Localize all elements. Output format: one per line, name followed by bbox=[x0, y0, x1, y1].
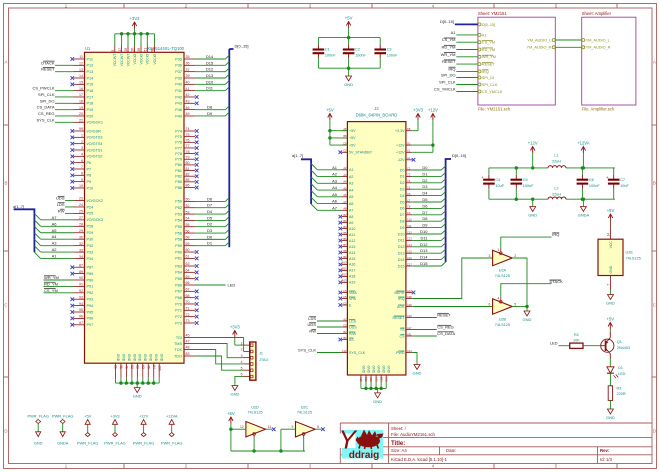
svg-text:92: 92 bbox=[79, 289, 83, 293]
capacitor C6 bbox=[577, 166, 601, 201]
svg-text:100nF: 100nF bbox=[523, 184, 534, 188]
bus a[1..7] at J2 bbox=[292, 153, 342, 210]
svg-text:C3: C3 bbox=[387, 47, 392, 51]
svg-text:Title:: Title: bbox=[391, 441, 405, 447]
wire IRQ label to U2A enable bbox=[501, 232, 560, 248]
svg-text:P76: P76 bbox=[175, 141, 182, 145]
svg-text:LED: LED bbox=[618, 372, 626, 376]
svg-text:P28: P28 bbox=[87, 225, 94, 229]
svg-text:P94: P94 bbox=[87, 304, 94, 308]
svg-text:62: 62 bbox=[136, 365, 140, 369]
svg-text:P37: P37 bbox=[175, 70, 182, 74]
svg-text:P95: P95 bbox=[87, 310, 94, 314]
svg-text:A2: A2 bbox=[52, 247, 58, 252]
svg-text:B8: B8 bbox=[343, 249, 347, 253]
resistor R3 220R bbox=[608, 373, 626, 400]
svg-text:PWR_FLAG: PWR_FLAG bbox=[133, 440, 154, 445]
svg-text:I/O/GCK2: I/O/GCK2 bbox=[87, 199, 103, 203]
svg-text:+5V: +5V bbox=[607, 208, 615, 213]
svg-text:C: C bbox=[4, 303, 7, 308]
svg-text:93: 93 bbox=[79, 295, 83, 299]
svg-text:GND: GND bbox=[230, 392, 239, 397]
sheet Amplifier bbox=[582, 11, 636, 112]
svg-text:+: + bbox=[481, 175, 484, 180]
svg-text:+5V: +5V bbox=[227, 411, 235, 416]
svg-text:GNDA: GNDA bbox=[57, 440, 69, 445]
svg-text:VPA: VPA bbox=[349, 297, 357, 301]
svg-text:SYS_CLK: SYS_CLK bbox=[349, 351, 366, 355]
svg-text:I/O/GTS2: I/O/GTS2 bbox=[87, 155, 103, 159]
svg-text:C5: C5 bbox=[407, 186, 411, 190]
svg-text:B13: B13 bbox=[342, 279, 347, 283]
svg-text:C32: C32 bbox=[384, 377, 388, 382]
svg-text:9: 9 bbox=[291, 425, 293, 429]
svg-text:B2: B2 bbox=[343, 330, 347, 334]
svg-text:A3: A3 bbox=[343, 173, 347, 177]
svg-text:11: 11 bbox=[79, 55, 83, 59]
svg-text:P15: P15 bbox=[87, 83, 94, 87]
svg-text:14: 14 bbox=[79, 74, 83, 78]
svg-text:+3V3: +3V3 bbox=[413, 107, 424, 112]
power +5V above C2 bbox=[345, 15, 353, 37]
svg-text:SPI_CLK: SPI_CLK bbox=[38, 92, 55, 97]
svg-text:YM_AUDIO_L: YM_AUDIO_L bbox=[527, 38, 551, 42]
svg-text:61: 61 bbox=[186, 255, 190, 259]
svg-text:R2: R2 bbox=[574, 333, 579, 337]
svg-text:VMA: VMA bbox=[349, 291, 357, 295]
svg-text:IRQ: IRQ bbox=[398, 297, 405, 301]
svg-text:A7: A7 bbox=[349, 209, 353, 213]
svg-text:CS: CS bbox=[400, 334, 406, 338]
svg-text:R3: R3 bbox=[617, 387, 622, 391]
svg-text:GND: GND bbox=[116, 354, 120, 362]
svg-text:TDI: TDI bbox=[176, 336, 182, 340]
svg-text:SYS_CLK: SYS_CLK bbox=[298, 348, 316, 353]
svg-text:VCC: VCC bbox=[609, 241, 613, 249]
svg-text:19: 19 bbox=[79, 106, 83, 110]
inductor L2 bbox=[489, 187, 615, 200]
svg-text:43: 43 bbox=[186, 100, 190, 104]
svg-text:Rev:: Rev: bbox=[600, 448, 610, 453]
svg-text:75: 75 bbox=[186, 133, 190, 137]
svg-text:D14: D14 bbox=[206, 54, 214, 59]
svg-text:P16: P16 bbox=[87, 89, 94, 93]
svg-text:A1: A1 bbox=[52, 254, 58, 259]
svg-text:D8: D8 bbox=[407, 127, 411, 131]
svg-text:A4: A4 bbox=[52, 234, 58, 239]
svg-text:VCCINT: VCCINT bbox=[126, 54, 130, 67]
svg-text:A31: A31 bbox=[407, 332, 412, 336]
svg-text:3: 3 bbox=[489, 254, 491, 258]
capacitor C7 bbox=[606, 168, 630, 199]
svg-text:+3V3: +3V3 bbox=[110, 413, 119, 418]
svg-text:96: 96 bbox=[79, 315, 83, 319]
svg-text:3: 3 bbox=[81, 146, 83, 150]
svg-text:73: 73 bbox=[186, 319, 190, 323]
svg-text:B11: B11 bbox=[342, 267, 347, 271]
svg-text:C2: C2 bbox=[343, 149, 347, 153]
svg-text:D4: D4 bbox=[422, 191, 428, 196]
wire TDO to J1 bbox=[195, 356, 244, 370]
svg-text:74LS125: 74LS125 bbox=[247, 411, 262, 415]
svg-text:10: 10 bbox=[79, 184, 83, 188]
svg-text:52: 52 bbox=[186, 204, 190, 208]
svg-text:24: 24 bbox=[79, 203, 83, 207]
svg-text:D11: D11 bbox=[398, 239, 404, 243]
labels into sheet YM2151 bbox=[434, 19, 478, 91]
svg-text:49: 49 bbox=[186, 112, 190, 116]
svg-text:C2: C2 bbox=[355, 47, 360, 51]
svg-text:70: 70 bbox=[186, 300, 190, 304]
svg-text:D13: D13 bbox=[206, 73, 214, 78]
svg-text:10uF: 10uF bbox=[620, 184, 629, 188]
transistor Q1 2N4403 bbox=[601, 332, 630, 359]
svg-text:A6: A6 bbox=[332, 199, 338, 204]
svg-text:P61: P61 bbox=[175, 257, 182, 261]
svg-text:A11: A11 bbox=[349, 233, 355, 237]
svg-text:4: 4 bbox=[81, 153, 83, 157]
no-connect U2C output bbox=[315, 427, 325, 431]
svg-text:Sheet: YM2151: Sheet: YM2151 bbox=[478, 11, 507, 16]
svg-text:SYS_CLK: SYS_CLK bbox=[36, 117, 54, 122]
power +3V3 at J1 bbox=[230, 324, 244, 345]
svg-text:C7: C7 bbox=[407, 198, 411, 202]
svg-text:C16: C16 bbox=[407, 256, 412, 260]
svg-text:P35: P35 bbox=[175, 57, 182, 61]
svg-text:13: 13 bbox=[79, 68, 83, 72]
svg-text:P6: P6 bbox=[87, 161, 92, 165]
svg-text:LDS: LDS bbox=[349, 319, 357, 323]
svg-text:67: 67 bbox=[186, 288, 190, 292]
IC U1 XC95144XL-TQ100 bbox=[85, 46, 185, 363]
svg-text:P54: P54 bbox=[175, 219, 182, 223]
svg-text:68: 68 bbox=[186, 294, 190, 298]
svg-text:P60: P60 bbox=[175, 250, 182, 254]
svg-text:TCK: TCK bbox=[174, 348, 182, 352]
svg-text:35: 35 bbox=[186, 55, 190, 59]
svg-text:2: 2 bbox=[81, 140, 83, 144]
ground under U2E bbox=[606, 290, 615, 306]
svg-text:8: 8 bbox=[317, 425, 319, 429]
power flag +12VA bbox=[161, 413, 182, 445]
svg-text:C17: C17 bbox=[407, 262, 412, 266]
svg-text:P66: P66 bbox=[175, 283, 182, 287]
ground under C2 bbox=[344, 68, 353, 87]
svg-text:C7: C7 bbox=[620, 178, 625, 182]
svg-text:A18: A18 bbox=[349, 275, 355, 279]
svg-text:SPI_CLK: SPI_CLK bbox=[439, 80, 456, 85]
svg-text:28: 28 bbox=[124, 48, 128, 52]
svg-text:GND: GND bbox=[371, 366, 375, 374]
label RESET right of J2 bbox=[412, 313, 451, 318]
svg-text:P12: P12 bbox=[87, 64, 94, 68]
svg-text:B: B bbox=[653, 181, 656, 186]
U1 right pins bbox=[174, 55, 199, 358]
svg-text:GND: GND bbox=[344, 82, 353, 87]
svg-text:+5V: +5V bbox=[349, 143, 356, 147]
svg-text:D14: D14 bbox=[398, 258, 405, 262]
svg-text:52: 52 bbox=[130, 365, 134, 369]
svg-text:74LS125: 74LS125 bbox=[495, 274, 510, 278]
svg-text:File: YM2151.sch: File: YM2151.sch bbox=[478, 106, 511, 111]
svg-text:D6: D6 bbox=[400, 207, 405, 211]
svg-text:Id: 1/3: Id: 1/3 bbox=[600, 457, 613, 462]
svg-text:D9: D9 bbox=[422, 223, 428, 228]
svg-text:+12VA: +12VA bbox=[577, 140, 590, 145]
svg-text:I/O/GSR: I/O/GSR bbox=[87, 129, 102, 133]
svg-text:P25: P25 bbox=[87, 212, 94, 216]
svg-text:81: 81 bbox=[186, 167, 190, 171]
J2 left pins bbox=[339, 127, 373, 355]
J2 ground pins bottom bbox=[359, 366, 391, 391]
svg-text:P93: P93 bbox=[87, 298, 94, 302]
svg-text:31: 31 bbox=[119, 365, 123, 369]
svg-text:P20: P20 bbox=[87, 114, 94, 118]
svg-text:99: 99 bbox=[79, 127, 83, 131]
svg-text:D11: D11 bbox=[420, 235, 428, 240]
svg-text:7: 7 bbox=[607, 284, 611, 286]
svg-text:C24: C24 bbox=[407, 349, 412, 353]
svg-text:I/O/GCK3: I/O/GCK3 bbox=[87, 218, 103, 222]
svg-text:30: 30 bbox=[79, 235, 83, 239]
svg-text:P89: P89 bbox=[87, 272, 94, 276]
svg-text:D1: D1 bbox=[207, 241, 213, 246]
svg-text:GND: GND bbox=[523, 317, 532, 322]
svg-text:A1: A1 bbox=[407, 156, 411, 160]
svg-text:P68: P68 bbox=[175, 296, 182, 300]
bus D[0..15] at J2 bbox=[412, 153, 466, 266]
sheet YM2151 bbox=[478, 11, 555, 112]
svg-text:12: 12 bbox=[240, 425, 244, 429]
svg-text:12: 12 bbox=[79, 62, 83, 66]
svg-text:74LS125: 74LS125 bbox=[297, 411, 312, 415]
svg-text:P56: P56 bbox=[175, 231, 182, 235]
svg-text:A1: A1 bbox=[451, 30, 457, 35]
svg-text:GND: GND bbox=[132, 354, 136, 362]
svg-text:RD_YM: RD_YM bbox=[482, 48, 495, 52]
svg-text:P10: P10 bbox=[87, 186, 94, 190]
svg-text:41: 41 bbox=[125, 365, 129, 369]
svg-text:A19: A19 bbox=[349, 281, 355, 285]
svg-text:GND: GND bbox=[387, 366, 391, 374]
svg-text:P74: P74 bbox=[175, 129, 182, 133]
power +3V3 at U1 top bbox=[111, 16, 157, 67]
svg-text:SPI_CLK: SPI_CLK bbox=[482, 83, 498, 87]
svg-text:C3: C3 bbox=[407, 173, 411, 177]
svg-text:D12: D12 bbox=[206, 67, 214, 72]
svg-text:2: 2 bbox=[241, 348, 243, 352]
svg-text:A12: A12 bbox=[349, 239, 355, 243]
svg-text:A6: A6 bbox=[52, 221, 58, 226]
svg-text:C8: C8 bbox=[407, 205, 411, 209]
svg-text:A9: A9 bbox=[349, 221, 353, 225]
svg-text:10K: 10K bbox=[573, 338, 580, 342]
svg-text:P39: P39 bbox=[175, 76, 182, 80]
svg-text:B7: B7 bbox=[343, 243, 347, 247]
svg-text:C1: C1 bbox=[407, 149, 411, 153]
svg-text:D0: D0 bbox=[207, 234, 213, 239]
svg-text:14: 14 bbox=[607, 233, 611, 237]
svg-text:15: 15 bbox=[79, 81, 83, 85]
svg-text:D2: D2 bbox=[400, 181, 405, 185]
svg-text:63: 63 bbox=[186, 262, 190, 266]
svg-text:GND: GND bbox=[361, 366, 365, 374]
svg-text:38: 38 bbox=[137, 48, 141, 52]
svg-text:D8: D8 bbox=[400, 220, 405, 224]
svg-text:PWR_FLAG: PWR_FLAG bbox=[77, 440, 98, 445]
svg-text:D1: D1 bbox=[407, 141, 411, 145]
svg-text:JTAG: JTAG bbox=[259, 358, 268, 362]
svg-text:37: 37 bbox=[186, 68, 190, 72]
svg-text:9: 9 bbox=[81, 178, 83, 182]
svg-text:D7: D7 bbox=[207, 203, 213, 208]
svg-text:A7: A7 bbox=[343, 200, 347, 204]
svg-text:2: 2 bbox=[514, 254, 516, 258]
power flag +3V3 bbox=[104, 413, 125, 445]
J2 right pins bbox=[393, 127, 416, 355]
svg-text:+3V3: +3V3 bbox=[230, 324, 241, 329]
svg-text:GND: GND bbox=[34, 440, 43, 445]
svg-text:+12V: +12V bbox=[396, 143, 405, 147]
svg-text:66: 66 bbox=[186, 281, 190, 285]
svg-text:TDO: TDO bbox=[174, 354, 182, 358]
svg-text:100nF: 100nF bbox=[325, 53, 336, 57]
bus a[1..7] left bbox=[13, 204, 74, 259]
svg-text:LED: LED bbox=[228, 282, 236, 287]
svg-text:B4: B4 bbox=[343, 225, 347, 229]
svg-text:A5: A5 bbox=[343, 186, 347, 190]
svg-text:A4: A4 bbox=[349, 188, 353, 192]
svg-text:D5: D5 bbox=[422, 197, 428, 202]
svg-text:+5V: +5V bbox=[349, 129, 356, 133]
svg-text:P42: P42 bbox=[175, 95, 182, 99]
svg-text:P81: P81 bbox=[175, 169, 182, 173]
svg-text:40: 40 bbox=[186, 81, 190, 85]
svg-text:+5V: +5V bbox=[345, 15, 353, 20]
svg-text:D6: D6 bbox=[207, 196, 213, 201]
svg-text:17: 17 bbox=[79, 93, 83, 97]
svg-text:D12: D12 bbox=[420, 242, 428, 247]
svg-text:R/W: R/W bbox=[349, 332, 357, 336]
power +12V at J2 right bbox=[412, 107, 438, 152]
svg-text:C6: C6 bbox=[407, 192, 411, 196]
svg-text:80: 80 bbox=[186, 161, 190, 165]
power flag GNDA bbox=[52, 413, 73, 445]
svg-text:VCCIO: VCCIO bbox=[133, 53, 137, 64]
svg-text:59: 59 bbox=[186, 242, 190, 246]
svg-text:P87: P87 bbox=[87, 266, 94, 270]
svg-text:86: 86 bbox=[186, 184, 190, 188]
power +3V3 at J2 right bbox=[412, 107, 423, 130]
svg-text:C5: C5 bbox=[343, 295, 347, 299]
no-connect U2D output bbox=[266, 427, 276, 431]
wire TDI drop bbox=[243, 338, 245, 352]
svg-text:A5: A5 bbox=[52, 228, 58, 233]
svg-text:C3: C3 bbox=[343, 323, 347, 327]
svg-text:32: 32 bbox=[79, 242, 83, 246]
svg-text:P58: P58 bbox=[175, 238, 182, 242]
svg-text:J2: J2 bbox=[374, 106, 379, 111]
svg-text:C4: C4 bbox=[495, 178, 500, 182]
svg-text:A17: A17 bbox=[407, 326, 412, 330]
svg-text:RESET: RESET bbox=[482, 63, 495, 67]
svg-text:A4: A4 bbox=[343, 180, 347, 184]
svg-text:5: 5 bbox=[111, 50, 115, 52]
svg-text:11: 11 bbox=[268, 425, 272, 429]
svg-text:P11: P11 bbox=[87, 57, 93, 61]
svg-text:P70: P70 bbox=[175, 302, 182, 306]
svg-text:ACK: ACK bbox=[397, 305, 405, 309]
svg-text:D4: D4 bbox=[207, 209, 213, 214]
svg-text:P92: P92 bbox=[87, 291, 94, 295]
svg-text:P33: P33 bbox=[87, 250, 94, 254]
svg-text:+3.3V: +3.3V bbox=[395, 129, 405, 133]
svg-text:GND: GND bbox=[154, 354, 158, 362]
svg-text:TS: TS bbox=[400, 328, 405, 332]
svg-text:GND: GND bbox=[413, 371, 422, 376]
svg-text:+12V: +12V bbox=[139, 413, 149, 418]
svg-text:D[0..15]: D[0..15] bbox=[452, 153, 466, 158]
svg-text:C16: C16 bbox=[369, 377, 373, 382]
buffer U2D 74LS125 bbox=[240, 405, 271, 438]
svg-text:23: 23 bbox=[79, 197, 83, 201]
svg-text:P59: P59 bbox=[175, 244, 182, 248]
svg-text:P36: P36 bbox=[175, 64, 182, 68]
svg-text:P24: P24 bbox=[87, 205, 94, 209]
svg-text:CS_YMCLK: CS_YMCLK bbox=[482, 90, 503, 94]
svg-text:C14: C14 bbox=[407, 243, 412, 247]
svg-text:87: 87 bbox=[79, 263, 83, 267]
svg-text:I/O/GTS3: I/O/GTS3 bbox=[87, 136, 103, 140]
svg-text:C4: C4 bbox=[407, 179, 411, 183]
svg-text:P46: P46 bbox=[175, 108, 182, 112]
bus D[0..15] at U1 bbox=[195, 44, 249, 248]
capacitor C3 bbox=[374, 38, 398, 69]
op-amp U2E 74LS125 power unit bbox=[598, 219, 641, 290]
svg-text:C10: C10 bbox=[342, 349, 347, 353]
svg-text:A5: A5 bbox=[349, 195, 353, 199]
svg-text:ddraig: ddraig bbox=[349, 450, 380, 461]
logo Y ddraig bbox=[339, 424, 384, 461]
svg-text:D68K_64PIN_BOARD: D68K_64PIN_BOARD bbox=[356, 113, 398, 118]
svg-text:6: 6 bbox=[489, 302, 491, 306]
svg-text:60: 60 bbox=[186, 248, 190, 252]
svg-text:D8: D8 bbox=[422, 216, 428, 221]
svg-text:4: 4 bbox=[497, 297, 499, 301]
svg-text:P65: P65 bbox=[175, 277, 182, 281]
svg-text:+5V: +5V bbox=[84, 413, 91, 418]
svg-text:A4: A4 bbox=[332, 185, 338, 190]
svg-text:GND: GND bbox=[138, 354, 142, 362]
capacitor C2 bbox=[343, 38, 367, 69]
svg-text:GND: GND bbox=[609, 265, 613, 273]
svg-text:82: 82 bbox=[186, 172, 190, 176]
svg-text:P72: P72 bbox=[175, 315, 182, 319]
svg-text:GND: GND bbox=[143, 354, 147, 362]
svg-text:P55: P55 bbox=[175, 225, 182, 229]
svg-text:1: 1 bbox=[497, 248, 499, 252]
svg-text:GND: GND bbox=[160, 354, 164, 362]
svg-text:8: 8 bbox=[81, 172, 83, 176]
power flag GND bbox=[27, 413, 48, 445]
svg-text:P53: P53 bbox=[175, 212, 182, 216]
svg-text:P64: P64 bbox=[175, 271, 182, 275]
svg-text:A29: A29 bbox=[407, 303, 412, 307]
svg-text:D[0..15]: D[0..15] bbox=[482, 23, 495, 27]
svg-text:a[1..7]: a[1..7] bbox=[292, 153, 303, 158]
svg-text:D7: D7 bbox=[422, 210, 428, 215]
svg-text:P77: P77 bbox=[175, 146, 182, 150]
